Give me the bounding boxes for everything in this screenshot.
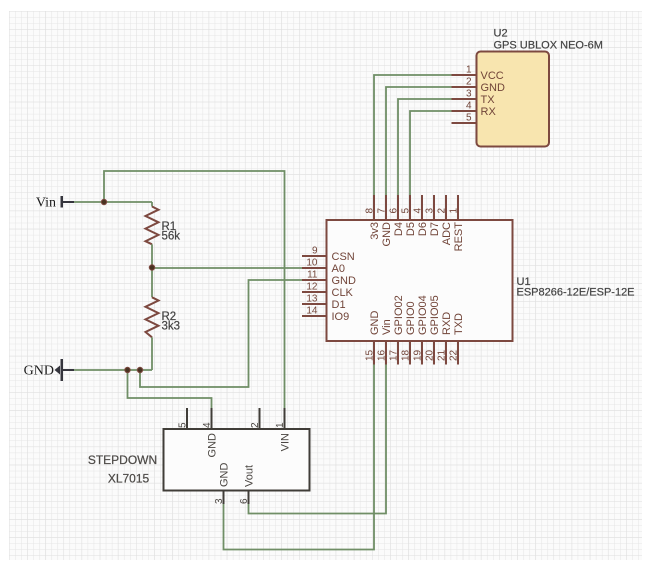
stepdown pin 1 VIN [275, 408, 292, 451]
wire U2 RX to U1 pin 5 D5 [410, 111, 452, 195]
U1 pin 6 D4 [389, 195, 406, 236]
svg-text:ADC: ADC [441, 222, 453, 245]
IC U1 ESP8266-12E/ESP-12E body [327, 220, 635, 341]
svg-text:TX: TX [481, 94, 496, 106]
svg-text:2: 2 [466, 77, 472, 88]
svg-text:GND: GND [219, 463, 231, 488]
svg-text:VCC: VCC [481, 70, 504, 82]
U2 pin 4 RX [452, 101, 497, 119]
U1 pin 5 D5 [401, 195, 418, 236]
svg-text:GPIO02: GPIO02 [393, 295, 405, 335]
svg-text:10: 10 [306, 258, 318, 269]
svg-text:12: 12 [306, 282, 318, 293]
U1 pin 13 D1 [302, 294, 346, 312]
U1 pin 3 D7 [425, 195, 442, 236]
svg-text:Vin: Vin [381, 319, 393, 335]
svg-text:9: 9 [312, 246, 318, 257]
U1 pin 12 CLK [302, 282, 354, 300]
svg-text:D4: D4 [393, 222, 405, 236]
svg-text:Vin: Vin [36, 196, 56, 211]
svg-text:D6: D6 [417, 222, 429, 236]
U1 pin 1 REST [449, 195, 466, 251]
svg-text:22: 22 [449, 349, 460, 361]
svg-text:VIN: VIN [280, 433, 292, 451]
U2 pin 3 TX [452, 89, 496, 107]
svg-text:RXD: RXD [441, 312, 453, 335]
wire GND rail [74, 369, 152, 371]
svg-text:REST: REST [453, 222, 465, 252]
junction node Vin/R1 [101, 199, 106, 204]
svg-text:Vout: Vout [244, 465, 256, 487]
stepdown pin 3 GND [214, 463, 231, 505]
U1 pin 4 D6 [413, 195, 430, 236]
svg-text:GND: GND [332, 275, 357, 287]
U1 pin 14 IO9 [302, 306, 349, 324]
svg-text:13: 13 [306, 294, 318, 305]
svg-text:3: 3 [425, 208, 436, 214]
U1 pin 18 GPIO0 [401, 301, 418, 364]
terminal Vin [36, 196, 74, 211]
svg-text:5: 5 [401, 208, 412, 214]
svg-text:6: 6 [239, 498, 250, 504]
U1 pin 8 3v3 [365, 195, 382, 240]
svg-text:4: 4 [202, 422, 213, 428]
svg-text:D1: D1 [332, 299, 346, 311]
stepdown pin 5 [178, 408, 189, 429]
junction node GND rail 1 [125, 367, 130, 372]
svg-text:A0: A0 [332, 263, 345, 275]
U2 pin 5 [452, 113, 477, 124]
svg-text:2: 2 [437, 208, 448, 214]
svg-text:CLK: CLK [332, 287, 354, 299]
wire U2 VCC to U1 pin 8 3v3 [374, 75, 452, 195]
svg-text:14: 14 [306, 306, 318, 317]
U1 pin 7 GND [377, 195, 394, 246]
svg-text:5: 5 [178, 422, 189, 428]
U1 pin 2 ADC [437, 195, 454, 245]
wire U1 pin 15 GND to stepdown pin 3 GND [224, 365, 375, 550]
svg-text:15: 15 [365, 349, 376, 361]
svg-text:GPIO04: GPIO04 [417, 295, 429, 335]
wire Vin rail to R1 top [74, 201, 152, 203]
svg-text:GND: GND [24, 364, 54, 379]
svg-text:TXD: TXD [453, 313, 465, 335]
stepdown pin 6 Vout [239, 465, 256, 504]
svg-text:ESP8266-12E/ESP-12E: ESP8266-12E/ESP-12E [517, 287, 635, 299]
resistor R1 56k [146, 202, 181, 268]
U2 pin 2 GND [452, 77, 506, 95]
svg-text:STEPDOWN: STEPDOWN [88, 453, 157, 467]
U1 pin 16 Vin [377, 319, 394, 364]
svg-text:IO9: IO9 [332, 311, 350, 323]
junction node GND rail 2 [137, 367, 142, 372]
svg-text:56k: 56k [162, 231, 181, 243]
U1 pin 19 GPIO04 [413, 295, 430, 364]
module U2 GPS UBLOX NEO-6M body [477, 28, 603, 147]
svg-text:20: 20 [425, 349, 436, 361]
svg-text:3v3: 3v3 [369, 222, 381, 240]
U1 pin 21 RXD [437, 312, 454, 365]
wire U1 pin 16 Vin to stepdown pin 6 Vout [249, 365, 387, 514]
wire U2 TX to U1 pin 6 D4 [398, 99, 452, 195]
svg-text:16: 16 [377, 349, 388, 361]
U1 pin 15 GND [365, 311, 382, 365]
svg-text:CSN: CSN [332, 251, 355, 263]
U1 pin 17 GPIO02 [389, 295, 406, 364]
stepdown pin 4 GND [202, 408, 219, 457]
svg-text:11: 11 [307, 270, 318, 281]
svg-text:D7: D7 [429, 222, 441, 236]
U2 pin 1 VCC [452, 65, 504, 83]
regulator module STEPDOWN XL7015 body [88, 429, 310, 491]
svg-text:21: 21 [437, 349, 448, 361]
stepdown pin 2 [250, 408, 261, 429]
svg-text:6: 6 [389, 208, 400, 214]
svg-text:19: 19 [413, 349, 424, 361]
svg-text:U2: U2 [494, 28, 508, 40]
svg-text:GND: GND [381, 222, 393, 247]
svg-text:2: 2 [250, 422, 261, 428]
wire Vin up and over to stepdown VIN pin 1 [104, 171, 285, 408]
wire GND rail to stepdown pin 4 GND [128, 370, 212, 408]
svg-text:1: 1 [466, 65, 472, 76]
wire GND rail to U1 pin 11 GND [140, 280, 302, 387]
svg-text:17: 17 [389, 349, 400, 361]
terminal GND [24, 359, 74, 381]
svg-text:4: 4 [466, 101, 472, 112]
wire R1/R2 divider node to U1 pin 10 A0 [152, 267, 302, 269]
resistor R2 3k3 [146, 268, 181, 370]
svg-text:1: 1 [275, 422, 286, 428]
svg-text:GND: GND [207, 433, 219, 458]
svg-text:8: 8 [365, 208, 376, 214]
U1 pin 9 CSN [302, 246, 355, 264]
U1 pin 20 GPIO05 [425, 295, 442, 364]
svg-text:XL7015: XL7015 [108, 472, 150, 486]
U1 pin 22 TXD [449, 313, 466, 365]
U1 pin 11 GND [302, 270, 356, 288]
svg-text:3: 3 [214, 498, 225, 504]
svg-text:3: 3 [466, 89, 472, 100]
svg-text:4: 4 [413, 208, 424, 214]
svg-text:GPS UBLOX NEO-6M: GPS UBLOX NEO-6M [494, 40, 603, 52]
wire U2 GND to U1 pin 7 GND [386, 87, 452, 195]
svg-text:5: 5 [466, 113, 472, 124]
junction node R1/R2 divider [149, 265, 154, 270]
svg-text:3k3: 3k3 [162, 321, 181, 333]
svg-text:7: 7 [377, 208, 388, 214]
svg-text:GPIO0: GPIO0 [405, 301, 417, 335]
svg-text:GPIO05: GPIO05 [429, 295, 441, 335]
svg-text:1: 1 [449, 208, 460, 214]
svg-text:GND: GND [369, 311, 381, 336]
svg-text:18: 18 [401, 349, 412, 361]
U1 pin 10 A0 [302, 258, 345, 276]
svg-text:D5: D5 [405, 222, 417, 236]
svg-text:GND: GND [481, 82, 506, 94]
svg-text:RX: RX [481, 106, 497, 118]
